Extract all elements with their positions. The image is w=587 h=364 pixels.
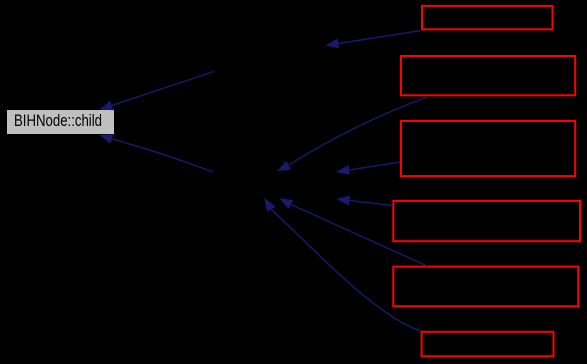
node box2 (red): [401, 56, 575, 95]
edge box1 -> M1 (wire): [326, 31, 422, 49]
edge box6 -> M2 (wire): [264, 198, 420, 331]
node BIHNode::child (current node, grey): [7, 110, 114, 134]
node box1 (red, top): [422, 6, 553, 29]
node box3 (red): [401, 121, 575, 176]
edge M1 -> BIHNode::child (wire): [100, 72, 215, 111]
node box4 (red): [393, 201, 580, 241]
node box6 (red, bottom): [422, 332, 554, 357]
edge box4 -> M2 (wire): [337, 196, 393, 206]
edge M2 -> BIHNode::child (wire): [100, 134, 214, 172]
svg-text:BIHNode::child: BIHNode::child: [14, 112, 102, 130]
edge box3 -> M2 (wire): [336, 162, 400, 175]
edge box5 -> M2 (wire): [279, 198, 427, 266]
edge box2 -> M2 (wire): [277, 97, 427, 171]
node box5 (red): [393, 267, 578, 307]
